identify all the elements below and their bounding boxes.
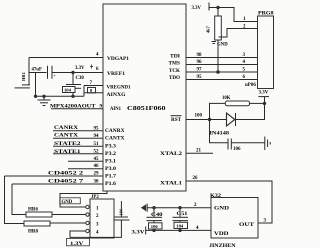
wire cap to ground bbox=[231, 142, 264, 144]
svg-text:VDD: VDD bbox=[214, 231, 229, 237]
svg-text:TCK: TCK bbox=[169, 69, 180, 74]
ground symbol bbox=[43, 96, 45, 100]
svg-text:CANRX: CANRX bbox=[54, 125, 78, 131]
junctions on VDD rail bbox=[152, 229, 155, 232]
svg-text:3.3V: 3.3V bbox=[75, 66, 85, 71]
wire pin8 AINXG bbox=[84, 92, 103, 94]
wire outer loop down left edge bbox=[5, 176, 25, 224]
svg-text:VREGND1: VREGND1 bbox=[107, 86, 131, 91]
svg-text:VDGAP1: VDGAP1 bbox=[107, 57, 130, 62]
svg-text:P1.6: P1.6 bbox=[105, 182, 117, 187]
capacitor C51 value 104 boxed bbox=[174, 222, 188, 228]
wire resistor bottom to TCK junction bbox=[217, 40, 219, 72]
svg-text:96: 96 bbox=[197, 60, 203, 65]
wire STATE1 bbox=[53, 153, 103, 155]
wire joining pins 7,8 to ground rail bbox=[83, 86, 85, 97]
junction at RST node bbox=[208, 118, 211, 121]
svg-text:4k7: 4k7 bbox=[206, 25, 211, 33]
svg-text:GND: GND bbox=[214, 205, 229, 211]
power 3.3V bar bbox=[208, 3, 210, 11]
svg-text:AIN1: AIN1 bbox=[110, 107, 121, 112]
wire PRG pin2 to GND bbox=[219, 29, 258, 38]
svg-text:GND: GND bbox=[217, 43, 228, 48]
svg-text:95: 95 bbox=[197, 75, 203, 80]
power 3.3V bar below PRG bbox=[258, 96, 269, 98]
diode D1 anode wire bbox=[210, 119, 227, 121]
svg-text:47uF: 47uF bbox=[32, 68, 42, 73]
svg-text:K32: K32 bbox=[210, 194, 222, 199]
wire branch down to ground rail bbox=[35, 73, 37, 97]
resistor HR8 body bbox=[24, 221, 50, 226]
svg-text:C8051F060: C8051F060 bbox=[127, 105, 166, 112]
svg-text:106: 106 bbox=[233, 147, 241, 152]
svg-text:XTAL1: XTAL1 bbox=[160, 180, 183, 186]
svg-text:106: 106 bbox=[151, 224, 159, 229]
wire XTAL1 pin 26 to oscillator OUT bbox=[186, 181, 272, 223]
svg-text:10K: 10K bbox=[222, 96, 231, 101]
junction on GND rail bbox=[152, 206, 155, 209]
ground rail wire bbox=[36, 95, 85, 97]
svg-text:C51: C51 bbox=[177, 212, 189, 217]
capacitor C30 lead bbox=[72, 73, 74, 85]
svg-text:AINXG: AINXG bbox=[107, 93, 126, 98]
diode D1 triangle bbox=[227, 113, 235, 126]
capacitor C31 top lead bbox=[120, 201, 122, 217]
svg-text:TDO: TDO bbox=[169, 76, 180, 81]
svg-text:104: 104 bbox=[176, 224, 184, 229]
capacitor C40 plates bbox=[147, 216, 163, 218]
svg-text:3.3V: 3.3V bbox=[259, 91, 269, 96]
resistor R31 10K body bbox=[225, 101, 249, 106]
net label 1.3V boxed bbox=[67, 238, 90, 245]
capacitor C51 bottom lead bbox=[179, 221, 181, 231]
wire JP2 pin1 to IC bottom bbox=[60, 191, 107, 207]
capacitor C51 plates bbox=[173, 216, 189, 218]
svg-text:VREF1: VREF1 bbox=[107, 72, 126, 77]
connector P1 PRG8 body bbox=[258, 16, 274, 89]
resistor HR6 body bbox=[26, 212, 52, 217]
svg-text:JINZHEN: JINZHEN bbox=[209, 243, 236, 248]
junction on rail bbox=[42, 95, 45, 98]
capacitor C2 47uF plates bbox=[47, 66, 49, 79]
junction on rail 2 bbox=[71, 95, 74, 98]
svg-text:P3.1: P3.1 bbox=[105, 159, 117, 164]
svg-text:XTAL2: XTAL2 bbox=[160, 151, 183, 157]
svg-text:1.3V: 1.3V bbox=[70, 242, 84, 247]
pin 8 number boxed bbox=[88, 88, 96, 93]
wire oscillator VDD rail bbox=[146, 229, 211, 231]
wire VREF1 row bbox=[29, 72, 47, 74]
connector JP2 body bbox=[90, 199, 114, 238]
svg-text:HR1: HR1 bbox=[21, 72, 26, 81]
wire JP2 pin4 loop to 1.3V rail bbox=[70, 220, 121, 237]
capacitor C30 plates bbox=[66, 84, 81, 86]
wire inner loop down left edge bbox=[12, 184, 26, 215]
svg-text:3.3V: 3.3V bbox=[192, 6, 202, 11]
junction at resistor top bbox=[216, 6, 219, 9]
wire VDD/AP1 pin4 top-left bbox=[29, 57, 103, 59]
wire JTAG TDO row bbox=[186, 79, 258, 81]
capacitor C51 lead bbox=[179, 208, 181, 218]
capacitor C32 plates bbox=[227, 139, 229, 150]
power 3.3V bar bottom bbox=[145, 227, 147, 235]
svg-text:OUT: OUT bbox=[239, 222, 255, 228]
capacitor C30 bottom lead bbox=[72, 88, 74, 96]
wire RST pin to node bbox=[186, 119, 210, 121]
svg-text:P3.2: P3.2 bbox=[105, 152, 117, 157]
svg-text:3.3V: 3.3V bbox=[132, 231, 145, 236]
svg-text:GND: GND bbox=[62, 200, 73, 205]
wire RST node to cap C32 bbox=[210, 120, 229, 143]
svg-text:104: 104 bbox=[64, 88, 72, 93]
capacitor HR1 plates bbox=[22, 84, 30, 86]
diode D1 cathode bar bbox=[235, 113, 237, 126]
svg-text:uP06: uP06 bbox=[245, 83, 256, 88]
wire JTAG TMS row bbox=[186, 64, 258, 66]
wire HR6 to JP2 pin2 bbox=[52, 214, 86, 216]
IC U1 C8051F060 body bbox=[103, 4, 186, 191]
value label 104 boxed bbox=[63, 87, 76, 93]
junction node on VREF row bbox=[71, 71, 74, 74]
wire HR8 to JP2 pin3 bbox=[50, 222, 86, 224]
wire oscillator GND rail bbox=[147, 207, 211, 209]
junction at 3.3V node bbox=[263, 102, 266, 105]
svg-text:100: 100 bbox=[195, 114, 203, 119]
svg-text:97: 97 bbox=[197, 68, 203, 73]
svg-text:RST: RST bbox=[171, 118, 182, 123]
svg-text:26: 26 bbox=[193, 176, 199, 181]
svg-text:P3.0: P3.0 bbox=[105, 167, 117, 172]
svg-text:HR8: HR8 bbox=[28, 230, 39, 235]
capacitor C31 plates bbox=[115, 216, 129, 218]
wire JTAG TDI row bbox=[186, 57, 258, 59]
capacitor C40 lead bbox=[153, 208, 155, 218]
svg-text:98: 98 bbox=[197, 53, 203, 58]
wire 10K left to RST node bbox=[210, 103, 226, 119]
svg-text:TMS: TMS bbox=[169, 61, 181, 66]
wire STATE2 bbox=[53, 145, 103, 147]
svg-text:21: 21 bbox=[196, 149, 202, 154]
junction on TCK bbox=[216, 70, 220, 74]
ground symbol sideways bbox=[264, 137, 266, 151]
connector JP2 pin circles bbox=[86, 205, 89, 208]
wire XTAL2 pin 21 bbox=[186, 152, 213, 154]
wire junction to resistor bbox=[217, 8, 219, 17]
wire left vertical branch bbox=[28, 58, 30, 85]
svg-text:P3.3: P3.3 bbox=[105, 144, 117, 149]
resistor R 4k7 body bbox=[215, 16, 222, 40]
net label GND boxed bbox=[60, 198, 81, 204]
svg-text:CANRX: CANRX bbox=[105, 129, 125, 134]
svg-text:P1.7: P1.7 bbox=[105, 174, 117, 179]
ground arrow symbol left of rail bbox=[141, 204, 146, 211]
power 3.3V tick bbox=[91, 65, 93, 69]
wire cathode to 3.3V bbox=[236, 103, 265, 119]
wire AIN1 pin9 bbox=[51, 108, 103, 110]
wire 10K right to 3.3V node bbox=[250, 102, 265, 104]
wire JTAG TCK row bbox=[186, 71, 258, 73]
svg-text:CANTX: CANTX bbox=[105, 137, 125, 142]
capacitor C40 value 106 boxed bbox=[149, 223, 163, 229]
svg-text:TDI: TDI bbox=[170, 55, 180, 60]
wire 3.3V rail to PRG pin1 bbox=[210, 8, 258, 22]
svg-text:IN4148: IN4148 bbox=[210, 132, 230, 137]
oscillator Y1 body bbox=[211, 198, 258, 239]
capacitor C40 bottom lead bbox=[153, 221, 155, 231]
svg-text:C30: C30 bbox=[76, 76, 85, 81]
wire pin7 VREGND1 bbox=[84, 85, 103, 87]
